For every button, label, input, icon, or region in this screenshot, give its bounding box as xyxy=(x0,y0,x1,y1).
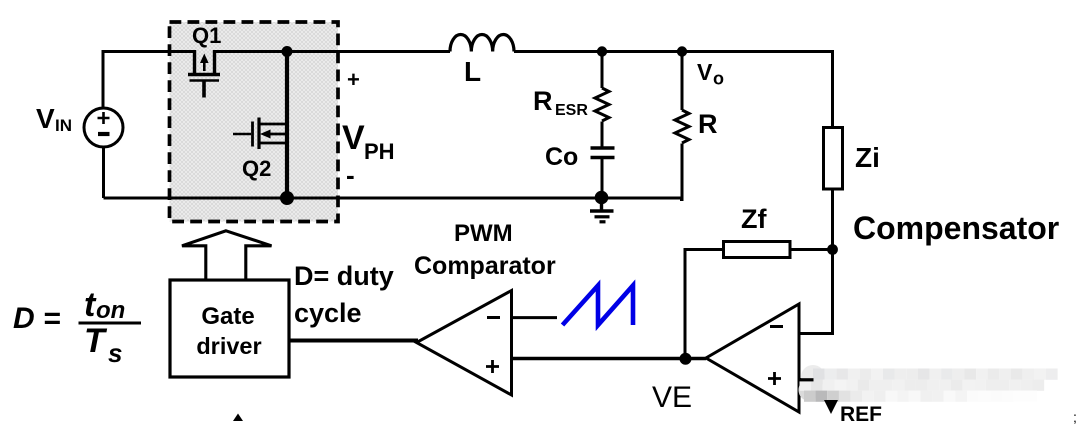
svg-text:Compensator: Compensator xyxy=(853,210,1059,246)
wire VE output xyxy=(512,357,707,361)
svg-text:driver: driver xyxy=(196,333,261,359)
svg-text:PWM: PWM xyxy=(454,220,513,247)
svg-text:o: o xyxy=(713,69,724,89)
arrowhead below gate driver xyxy=(233,414,243,422)
svg-text:Zi: Zi xyxy=(855,142,880,173)
svg-text:REF: REF xyxy=(840,403,882,426)
wire top rail right xyxy=(514,52,833,128)
svg-text:R: R xyxy=(533,86,553,116)
power stage dashed box xyxy=(170,22,339,222)
svg-text:;: ; xyxy=(1073,409,1077,425)
block arrow to power stage xyxy=(182,231,272,280)
wire R branch bottom xyxy=(680,144,682,200)
svg-text:Gate: Gate xyxy=(201,303,254,330)
gate driver box xyxy=(170,280,289,377)
svg-text:s: s xyxy=(108,338,122,368)
sawtooth ramp waveform xyxy=(563,286,634,326)
svg-text:Q2: Q2 xyxy=(242,156,271,181)
resistor R xyxy=(675,110,689,143)
wire Zf feedback left xyxy=(685,250,724,360)
wire Vin vertical bottom xyxy=(102,147,105,198)
wire Resr to Co xyxy=(601,122,604,147)
wire Zf right xyxy=(790,248,833,251)
svg-text:T: T xyxy=(84,322,108,360)
node VE xyxy=(680,353,692,365)
svg-text:ESR: ESR xyxy=(555,102,588,119)
svg-text:R: R xyxy=(698,109,718,139)
svg-text:D =: D = xyxy=(13,302,61,335)
wire comparator minus stub xyxy=(512,316,558,319)
node Zf-Zi junction xyxy=(827,244,838,255)
svg-text:D= duty: D= duty xyxy=(294,261,394,291)
node phase bottom xyxy=(280,191,294,205)
ground xyxy=(590,198,614,222)
svg-text:V: V xyxy=(36,103,55,134)
node Vo xyxy=(677,46,687,56)
op-amp PWM comparator xyxy=(417,291,512,396)
wire R branch top xyxy=(681,52,684,111)
watermark blur patch xyxy=(799,365,1058,402)
wire inverting input to node xyxy=(799,252,833,334)
svg-text:L: L xyxy=(464,56,481,87)
svg-text:Q1: Q1 xyxy=(192,23,221,48)
svg-text:cycle: cycle xyxy=(294,298,362,328)
capacitor Co xyxy=(591,146,615,150)
wire top rail middle xyxy=(215,50,451,53)
node Resr top xyxy=(597,46,607,56)
resistor RESR xyxy=(595,88,609,121)
svg-text:PH: PH xyxy=(364,139,395,164)
svg-text:+: + xyxy=(347,67,360,92)
svg-text:Co: Co xyxy=(545,143,578,171)
svg-text:VE: VE xyxy=(652,381,692,414)
svg-text:V: V xyxy=(697,59,713,85)
wire Vin vertical top xyxy=(102,50,105,108)
node phase top xyxy=(282,46,293,57)
impedance Zf xyxy=(724,242,791,258)
svg-text:Comparator: Comparator xyxy=(414,252,556,280)
wire Co to ground xyxy=(601,158,604,198)
op-amp error amplifier xyxy=(706,304,799,412)
svg-text:on: on xyxy=(96,297,125,324)
impedance Zi xyxy=(824,128,843,190)
svg-text:Zf: Zf xyxy=(741,204,767,234)
label VREF arrow xyxy=(824,400,838,414)
formula D = ton/Ts xyxy=(13,286,141,368)
wire noninverting stub xyxy=(799,378,815,381)
svg-text:-: - xyxy=(346,160,355,190)
wire Zi to node xyxy=(831,189,834,334)
wire VPH heavy vertical xyxy=(285,52,289,199)
wire noninverting stub over patch xyxy=(799,378,814,381)
voltage source VIN xyxy=(84,108,123,147)
node ground xyxy=(595,191,609,205)
wire Resr branch top xyxy=(601,52,604,89)
wire bottom rail xyxy=(104,197,683,200)
transistor Q2 xyxy=(233,118,287,150)
svg-text:IN: IN xyxy=(55,116,72,135)
wire gate driver to comparator xyxy=(289,339,418,343)
inductor L xyxy=(450,34,514,51)
transistor Q1 xyxy=(188,50,220,98)
svg-text:V: V xyxy=(342,119,365,157)
wire top rail left xyxy=(103,50,195,53)
